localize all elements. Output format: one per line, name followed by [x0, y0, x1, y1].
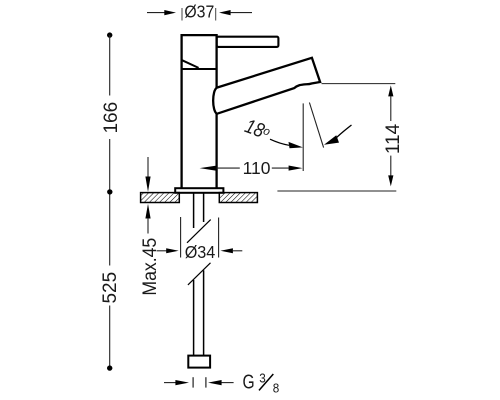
- angle jet line 18deg: [309, 103, 323, 148]
- tilted cap underside: [182, 60, 199, 68]
- handle lever: [217, 37, 279, 47]
- faucet body: [182, 35, 217, 188]
- G3/8 nut: [188, 356, 210, 368]
- dim Max.45: [138, 157, 160, 296]
- tube break slash upper: [187, 220, 211, 243]
- dim G3/8: [164, 370, 279, 395]
- svg-text:8: 8: [273, 381, 280, 396]
- svg-text:G: G: [242, 370, 254, 392]
- svg-text:Ø37: Ø37: [184, 2, 214, 22]
- cap joint line: [181, 68, 216, 70]
- svg-text:Ø34: Ø34: [185, 242, 216, 262]
- curved arrow at jet line: [334, 125, 351, 140]
- svg-text:166: 166: [101, 102, 122, 134]
- dim Ø37: [147, 2, 252, 22]
- dim 114: [277, 84, 403, 191]
- deck right (hatched): [219, 193, 257, 203]
- tube break slash lower: [188, 263, 211, 285]
- spout: [213, 58, 320, 114]
- label 18deg: [242, 114, 274, 144]
- svg-text:110: 110: [243, 158, 271, 178]
- svg-text:525: 525: [100, 272, 121, 304]
- flange: [175, 188, 223, 193]
- dim 166 / 525 vertical line: [100, 32, 122, 370]
- angle reference vertical line: [302, 103, 304, 171]
- svg-text:114: 114: [383, 123, 404, 154]
- svg-text:Max.45: Max.45: [138, 238, 160, 296]
- deck left (hatched): [141, 193, 180, 203]
- leader arrow 18deg: [270, 139, 289, 145]
- dim 110: [200, 158, 303, 178]
- dim Ø34: [157, 217, 243, 262]
- supply tube: [194, 193, 204, 356]
